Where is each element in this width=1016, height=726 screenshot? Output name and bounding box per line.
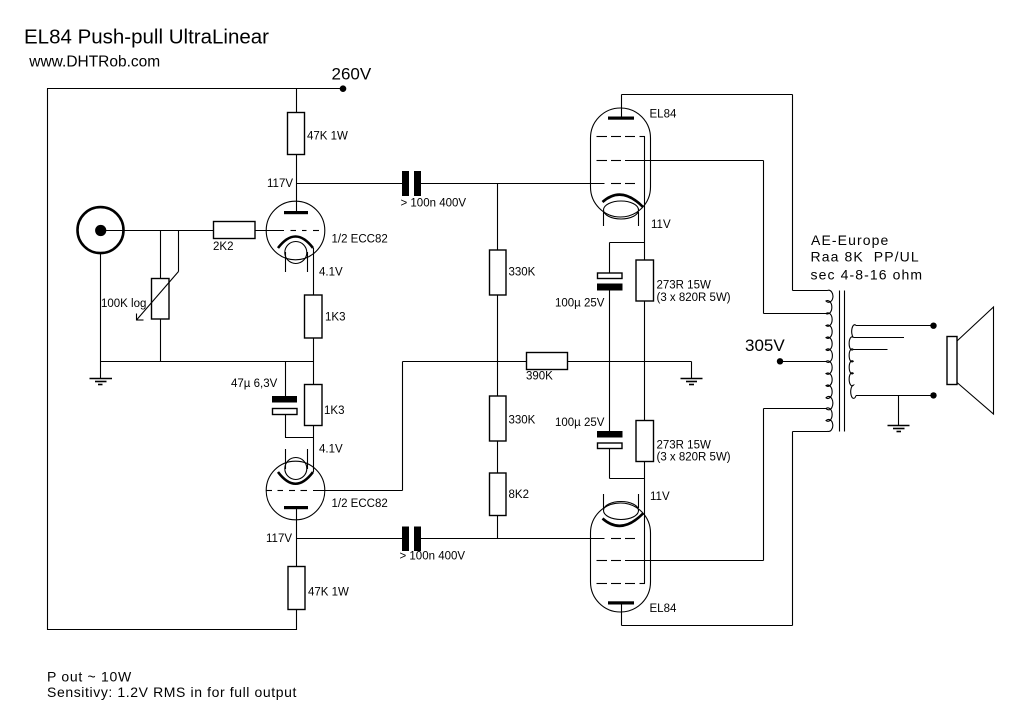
svg-text:330K: 330K xyxy=(509,415,536,427)
svg-text:(3 x 820R 5W): (3 x 820R 5W) xyxy=(657,452,731,464)
svg-text:100µ 25V: 100µ 25V xyxy=(555,298,605,310)
svg-text:117V: 117V xyxy=(267,178,293,190)
svg-text:4.1V: 4.1V xyxy=(319,267,343,279)
svg-text:AE-Europe: AE-Europe xyxy=(811,232,889,248)
svg-text:EL84 Push-pull UltraLinear: EL84 Push-pull UltraLinear xyxy=(24,26,269,49)
svg-text:Sensitivy: 1.2V RMS in for ful: Sensitivy: 1.2V RMS in for full output xyxy=(47,684,297,700)
svg-text:4.1V: 4.1V xyxy=(319,444,343,456)
svg-text:330K: 330K xyxy=(509,267,536,279)
svg-text:Raa 8K PP/UL: Raa 8K PP/UL xyxy=(811,249,920,265)
svg-text:EL84: EL84 xyxy=(650,603,677,615)
svg-text:390K: 390K xyxy=(526,371,553,383)
svg-text:11V: 11V xyxy=(650,491,670,503)
svg-text:(3 x 820R 5W): (3 x 820R 5W) xyxy=(657,292,731,304)
svg-text:273R 15W: 273R 15W xyxy=(657,280,711,292)
svg-text:1/2 ECC82: 1/2 ECC82 xyxy=(332,498,388,510)
svg-text:1K3: 1K3 xyxy=(324,405,344,417)
svg-text:260V: 260V xyxy=(332,65,372,84)
svg-text:47µ 6,3V: 47µ 6,3V xyxy=(231,378,278,390)
svg-text:100µ 25V: 100µ 25V xyxy=(555,417,605,429)
svg-text:47K 1W: 47K 1W xyxy=(308,587,349,599)
svg-text:47K 1W: 47K 1W xyxy=(307,131,348,143)
svg-text:> 100n 400V: > 100n 400V xyxy=(400,551,466,563)
svg-text:2K2: 2K2 xyxy=(213,241,233,253)
svg-text:117V: 117V xyxy=(266,533,292,545)
svg-text:11V: 11V xyxy=(651,219,671,231)
svg-text:1K3: 1K3 xyxy=(325,312,345,324)
svg-text:273R 15W: 273R 15W xyxy=(657,440,711,452)
svg-text:P out ~ 10W: P out ~ 10W xyxy=(47,669,132,685)
svg-text:sec 4-8-16 ohm: sec 4-8-16 ohm xyxy=(811,267,924,283)
svg-text:100K log: 100K log xyxy=(101,298,146,310)
svg-text:8K2: 8K2 xyxy=(509,489,529,501)
svg-text:www.DHTRob.com: www.DHTRob.com xyxy=(28,54,160,71)
svg-text:305V: 305V xyxy=(745,336,785,355)
svg-text:EL84: EL84 xyxy=(650,109,677,121)
svg-text:1/2 ECC82: 1/2 ECC82 xyxy=(332,234,388,246)
svg-text:> 100n 400V: > 100n 400V xyxy=(401,198,467,210)
